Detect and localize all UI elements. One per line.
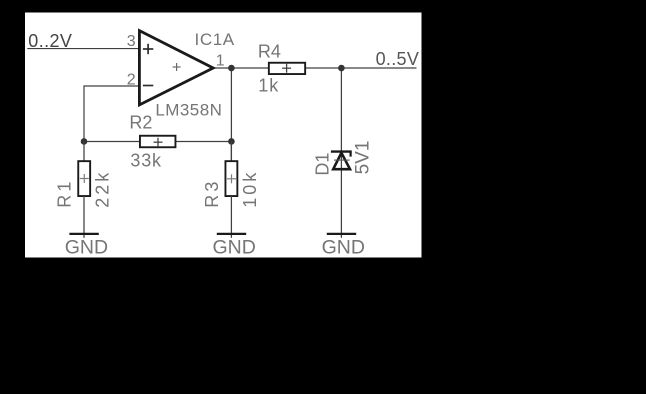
- ground GND2 bar: [217, 233, 246, 235]
- wire output node down to R3: [230, 68, 232, 161]
- wire output horizontal: [213, 67, 417, 69]
- svg-text:2: 2: [127, 72, 136, 89]
- svg-text:D1: D1: [313, 153, 333, 176]
- svg-text:R2: R2: [129, 113, 152, 133]
- wire pin2 to feedback node: [84, 86, 141, 141]
- junction dot output node: [228, 65, 235, 72]
- svg-text:5V1: 5V1: [353, 141, 374, 175]
- zener diode D1 cathode bend: [350, 152, 352, 157]
- wire R1 top: [83, 141, 85, 161]
- ground GND1 bar: [69, 233, 98, 235]
- svg-text:LM358N: LM358N: [155, 100, 222, 119]
- svg-text:R3: R3: [202, 178, 222, 207]
- svg-text:GND: GND: [322, 236, 365, 258]
- resistor R1 body: [78, 161, 90, 196]
- svg-text:1k: 1k: [258, 76, 279, 96]
- junction dot zener node: [338, 65, 345, 72]
- svg-text:0..2V: 0..2V: [28, 31, 72, 51]
- zener diode D1 cathode bar: [331, 150, 352, 152]
- svg-text:10k: 10k: [240, 170, 260, 208]
- op-amp plus input mark: [143, 44, 153, 54]
- svg-text:R4: R4: [258, 41, 281, 61]
- wire net 0..2V input: [27, 48, 140, 50]
- ground GND3 bar: [327, 233, 356, 235]
- wire R3 top from feedback: [230, 141, 232, 161]
- junction dot feedback right: [228, 138, 235, 145]
- svg-text:GND: GND: [65, 236, 108, 258]
- wire R1 bottom: [83, 196, 85, 238]
- zener diode D1 triangle: [333, 153, 350, 169]
- svg-text:GND: GND: [213, 236, 256, 258]
- resistor R4 body: [269, 63, 305, 74]
- wire node down to D1: [340, 68, 342, 152]
- resistor R2 body: [140, 136, 176, 148]
- wire R3 bottom: [230, 196, 232, 238]
- svg-text:0..5V: 0..5V: [376, 49, 420, 69]
- svg-text:1: 1: [216, 52, 225, 69]
- op-amp minus input mark: [143, 85, 153, 87]
- svg-text:3: 3: [127, 33, 136, 50]
- resistor R3 body: [225, 161, 237, 196]
- svg-text:IC1A: IC1A: [195, 30, 235, 49]
- wire D1 bottom: [340, 152, 342, 238]
- op-amp small plus mark: [173, 63, 181, 71]
- svg-text:33k: 33k: [130, 151, 162, 171]
- svg-text:R1: R1: [55, 178, 75, 207]
- op-amp IC1A triangle: [139, 31, 213, 105]
- svg-text:22k: 22k: [92, 170, 112, 208]
- junction dot feedback left: [81, 138, 88, 145]
- zener diode D1 mid line: [334, 159, 350, 161]
- wire feedback horizontal: [84, 140, 231, 142]
